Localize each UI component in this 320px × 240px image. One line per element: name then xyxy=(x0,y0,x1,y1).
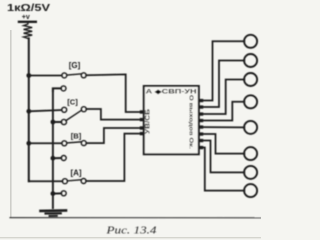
switch S1 [G] left contact xyxy=(62,73,67,78)
pin L2 xyxy=(140,118,144,121)
wire: U1 pin R5 to lamp HL5 xyxy=(203,126,244,128)
switch S2 [C] arm (thrown to lower contact) xyxy=(66,110,82,120)
wire: bus corner to switch S4 xyxy=(29,180,63,181)
lamp HL1 xyxy=(244,35,257,48)
wire: +V bus vertical xyxy=(28,38,30,181)
wire: stub to S2 alternate contact xyxy=(53,121,61,123)
pin R7 xyxy=(199,139,203,142)
wire: bus to switch S2 xyxy=(29,110,62,111)
switch S2 alternate contact xyxy=(61,119,66,124)
node: junction bus/switch S2 xyxy=(26,109,31,114)
svg-text:+v: +v xyxy=(22,14,30,21)
svg-text:О выходов Ок.: О выходов Ок. xyxy=(188,95,194,150)
node: junction ground bus / S2 alternate stub xyxy=(51,120,56,125)
ground xyxy=(41,209,67,212)
svg-text:1кΩ/5V: 1кΩ/5V xyxy=(7,3,50,14)
wire: U1 pin R8 to lamp HL8 xyxy=(203,148,244,191)
svg-text:[C]: [C] xyxy=(67,98,78,107)
lamp HL7 xyxy=(244,166,257,179)
switch S4 alternate contact xyxy=(61,191,66,196)
switch S3 [B] arm xyxy=(67,142,82,143)
wire: U1 pin R2 to lamp HL2 xyxy=(203,61,244,108)
wire: U1 pin R4 to lamp HL4 xyxy=(203,102,244,121)
node: junction ground bus / S3 alternate stub xyxy=(51,156,56,161)
pin L3 xyxy=(140,126,144,129)
power +V terminal bar xyxy=(19,21,36,23)
lamp HL3 xyxy=(244,73,257,86)
switch S4 [A] right contact xyxy=(81,179,86,184)
pin L4 xyxy=(140,132,144,135)
wire: ground bus vertical xyxy=(52,88,54,208)
lamp HL2 xyxy=(244,54,257,67)
pin R2 xyxy=(199,105,203,108)
wire: ground bus stub to S1 alternate contact xyxy=(53,88,61,91)
switch S4 [A] arm xyxy=(67,180,81,181)
svg-text:[B]: [B] xyxy=(71,131,82,140)
lamp HL5 xyxy=(244,121,257,134)
wire: stub to S3 alternate contact xyxy=(53,157,61,159)
svg-text:[G]: [G] xyxy=(69,61,81,70)
wire: switch S3 to U1 pin L3 xyxy=(86,128,140,143)
lamp HL8 xyxy=(244,184,257,197)
switch S2 [C] right contact xyxy=(81,107,86,112)
wire: stub to S4 alternate contact xyxy=(53,192,61,194)
wire: bus to switch S1 xyxy=(29,75,62,77)
pin R6 xyxy=(199,132,203,135)
switch S1 [G] right contact xyxy=(81,73,86,78)
switch S2 [C] left contact xyxy=(62,107,67,112)
switch S3 alternate contact xyxy=(61,156,66,161)
wire: switch S1 to U1 pin L1 xyxy=(86,74,140,112)
svg-text:УВ/СБ: УВ/СБ xyxy=(144,108,151,134)
wire: switch S2 to U1 pin L2 xyxy=(86,109,140,120)
switch S1 [G] arm xyxy=(67,74,81,75)
pin L1 xyxy=(140,110,144,113)
figure separator rule xyxy=(10,217,261,219)
pin R3 xyxy=(199,112,203,115)
svg-text:Рис. 13.4: Рис. 13.4 xyxy=(105,224,157,236)
wire: U1 pin R7 to lamp HL7 xyxy=(203,141,244,173)
pin R4 xyxy=(199,119,203,122)
IC U1 body xyxy=(144,86,199,154)
wire: switch S4 to U1 pin L4 xyxy=(86,134,140,181)
switch S1 alternate contact xyxy=(61,86,66,91)
switch S3 [B] right contact xyxy=(81,141,86,146)
pin R8 xyxy=(199,146,203,149)
switch S4 [A] left contact xyxy=(62,179,67,184)
wire: U1 pin R6 to lamp HL6 xyxy=(203,134,244,154)
lamp HL6 xyxy=(244,147,257,160)
switch S3 [B] left contact xyxy=(62,141,67,146)
lamp HL4 xyxy=(244,95,257,108)
svg-text:[A]: [A] xyxy=(70,168,81,177)
node: junction bus/switch S1 xyxy=(26,73,31,78)
pin R1 xyxy=(199,99,203,102)
wire: bus to switch S3 xyxy=(29,142,62,144)
node: junction bus/switch S3 xyxy=(26,141,31,146)
resistor R1 xyxy=(24,23,33,39)
pin R5 xyxy=(199,125,203,128)
node: junction ground bus / S4 alternate stub xyxy=(51,191,56,196)
wire: U1 pin R3 to lamp HL3 xyxy=(203,80,244,115)
wire: U1 pin R1 to lamp HL1 xyxy=(203,41,244,100)
